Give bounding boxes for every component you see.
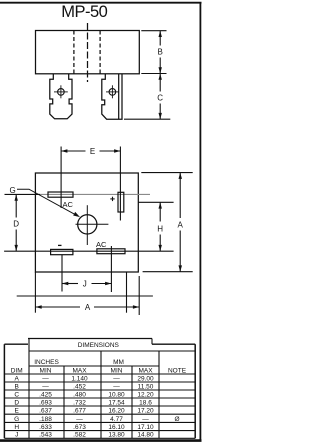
A right bottom tick — [143, 271, 193, 273]
svg-text:B: B — [158, 48, 163, 57]
svg-text:18.6: 18.6 — [139, 399, 152, 406]
svg-text:NOTE: NOTE — [168, 368, 187, 375]
left terminal lead outline — [50, 74, 72, 119]
E left extension — [60, 147, 62, 209]
svg-text:—: — — [113, 383, 120, 390]
column line DIM — [28, 339, 30, 439]
svg-text:E: E — [90, 147, 95, 156]
dimension A right line — [179, 173, 183, 272]
dimension C line — [159, 74, 162, 120]
svg-text:.425: .425 — [39, 391, 52, 398]
center hole circle — [78, 215, 97, 234]
plus sign — [110, 198, 114, 200]
page border bottom thick — [0, 439, 202, 442]
svg-text:DIMENSIONS: DIMENSIONS — [78, 342, 120, 349]
svg-text:.543: .543 — [39, 432, 52, 439]
bottom AC pad — [97, 249, 125, 254]
table top left cap — [4, 343, 28, 345]
svg-text:—: — — [142, 416, 149, 423]
G leader arrowhead — [73, 212, 80, 217]
dimension A bottom line — [35, 305, 139, 308]
table top right cap — [152, 343, 195, 345]
C bottom extension tick — [124, 118, 170, 120]
svg-text:J: J — [15, 432, 18, 439]
column line note — [158, 351, 160, 438]
svg-text:.480: .480 — [73, 391, 86, 398]
table right border — [194, 344, 196, 438]
svg-text:A: A — [85, 303, 91, 312]
extension below square x126 — [126, 272, 128, 313]
dimension J line — [62, 282, 111, 285]
svg-text:29.00: 29.00 — [137, 375, 154, 382]
row lines data — [4, 381, 195, 383]
minus pad — [51, 249, 73, 254]
page border top — [0, 2, 202, 4]
dimension E line — [61, 149, 120, 152]
svg-text:H: H — [14, 424, 19, 431]
B top extension tick — [141, 30, 166, 32]
svg-text:11.50: 11.50 — [138, 383, 154, 390]
svg-text:16.20: 16.20 — [108, 408, 125, 415]
svg-text:MIN: MIN — [111, 368, 123, 375]
svg-text:14.80: 14.80 — [137, 432, 154, 439]
svg-text:17.20: 17.20 — [137, 408, 154, 415]
left lead hole circle — [58, 89, 65, 96]
row line below INCHES MM — [29, 365, 159, 367]
bottom pads centerline — [4, 250, 174, 252]
svg-text:12.20: 12.20 — [137, 391, 154, 398]
column line inches min/max — [63, 366, 65, 438]
svg-text:MAX: MAX — [138, 368, 153, 375]
svg-text:B: B — [15, 383, 19, 390]
D top tick black part — [5, 193, 41, 195]
svg-text:—: — — [42, 375, 49, 382]
svg-text:INCHES: INCHES — [34, 359, 59, 366]
svg-text:16.10: 16.10 — [108, 424, 125, 431]
centerline of top view — [87, 23, 89, 82]
right lead inner edge — [118, 74, 120, 119]
table left border — [3, 344, 5, 438]
top AC pad — [48, 192, 73, 197]
extension below square left — [34, 272, 36, 313]
hole crosshair horizontal — [76, 223, 109, 225]
column line mm min/max — [131, 366, 133, 438]
svg-text:A: A — [15, 375, 20, 382]
dimension D line — [15, 194, 18, 251]
H top tick — [138, 201, 173, 203]
svg-text:DIM: DIM — [11, 368, 23, 375]
J left extension — [61, 255, 63, 292]
hidden dashed line right — [99, 31, 101, 74]
svg-text:C: C — [157, 94, 163, 103]
hole crosshair vertical — [86, 205, 88, 245]
svg-text:.673: .673 — [73, 424, 86, 431]
svg-text:.582: .582 — [73, 432, 86, 439]
row line below MIN MAX — [4, 373, 195, 375]
top pads centerline gray — [40, 193, 150, 195]
svg-text:D: D — [14, 399, 19, 406]
hidden dashed line left — [73, 31, 75, 74]
svg-text:MAX: MAX — [72, 368, 87, 375]
J right extension — [110, 246, 112, 292]
svg-text:G: G — [14, 416, 19, 423]
A right edge extension below square — [138, 276, 140, 315]
svg-text:MIN: MIN — [40, 368, 52, 375]
svg-text:AC: AC — [63, 200, 74, 209]
plus pad — [118, 192, 124, 212]
svg-text:.188: .188 — [39, 416, 52, 423]
table header DIMENSIONS box top — [28, 338, 152, 340]
svg-text:MP-50: MP-50 — [61, 3, 107, 21]
E right extension — [119, 147, 121, 221]
svg-text:D: D — [13, 220, 19, 229]
svg-text:A: A — [178, 221, 184, 230]
svg-text:.732: .732 — [73, 399, 86, 406]
A right top tick — [141, 172, 192, 174]
right lead hole circle — [109, 89, 116, 96]
svg-text:AC: AC — [96, 240, 107, 249]
B/C shared extension tick — [141, 73, 166, 75]
right lead crosshair — [106, 91, 119, 93]
svg-text:—: — — [76, 416, 83, 423]
svg-text:.677: .677 — [73, 408, 86, 415]
dimension H line — [159, 202, 162, 251]
page border right — [199, 2, 201, 441]
svg-text:G: G — [10, 186, 16, 195]
top view body — [36, 31, 140, 74]
right terminal lead outline — [102, 74, 122, 119]
svg-text:1.140: 1.140 — [71, 375, 88, 382]
row line below DIMENSIONS — [29, 350, 195, 352]
G leader line — [17, 189, 77, 215]
svg-text:MM: MM — [113, 359, 124, 366]
svg-text:.637: .637 — [39, 408, 52, 415]
dimensions table — [4, 339, 195, 439]
minus sign — [58, 244, 62, 246]
svg-text:4.77: 4.77 — [110, 416, 123, 423]
auxiliary line below square — [17, 295, 153, 297]
svg-text:.693: .693 — [39, 399, 52, 406]
column line inches/mm — [100, 351, 102, 438]
svg-text:17.10: 17.10 — [137, 424, 154, 431]
svg-text:13.80: 13.80 — [108, 432, 125, 439]
svg-text:—: — — [42, 383, 49, 390]
svg-text:.633: .633 — [39, 424, 52, 431]
svg-text:C: C — [14, 391, 19, 398]
svg-text:Ø: Ø — [174, 416, 179, 423]
svg-text:E: E — [15, 408, 20, 415]
svg-text:H: H — [157, 225, 163, 234]
svg-text:—: — — [113, 375, 120, 382]
svg-text:10.80: 10.80 — [108, 391, 125, 398]
svg-text:17.54: 17.54 — [108, 399, 125, 406]
left lead crosshair — [54, 91, 68, 93]
svg-text:.452: .452 — [73, 383, 86, 390]
svg-text:J: J — [83, 280, 87, 289]
dimension B line — [159, 31, 162, 74]
middle view square body — [35, 173, 138, 272]
